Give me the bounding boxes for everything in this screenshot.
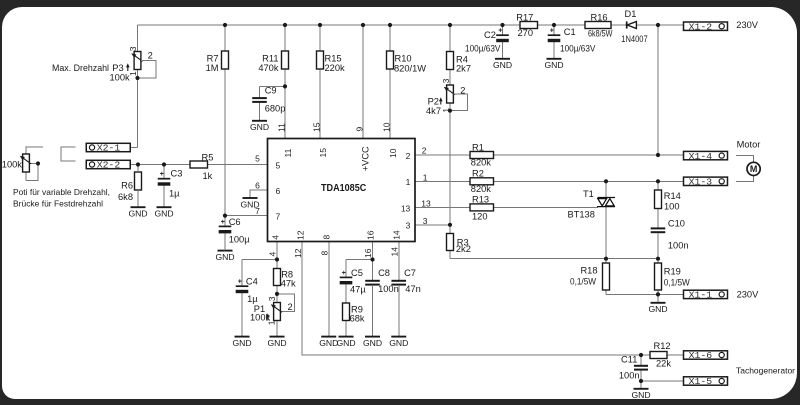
svg-text:X1-3: X1-3 [689,177,713,188]
svg-text:8: 8 [320,251,330,256]
wire left poti wiper and bottom tie [26,164,38,181]
wire X2-2 to pin 5 (via R5) [130,164,268,166]
svg-text:12: 12 [293,248,303,258]
wire P3 branch from bus to X2-1 [130,25,138,148]
junction T1 top [604,179,608,183]
diode D1 [621,9,647,44]
svg-text:270: 270 [518,28,534,38]
wire pin 13 row to triac gate [415,206,598,208]
svg-text:220k: 220k [325,63,346,73]
svg-text:2: 2 [288,302,293,312]
svg-text:10: 10 [381,122,391,132]
svg-text:100n: 100n [619,371,640,381]
svg-text:100µ/63V: 100µ/63V [560,43,596,53]
wire VCC bus (230V rail) [138,24,684,26]
svg-text:6k8/5W: 6k8/5W [588,28,613,38]
svg-text:100µ: 100µ [229,234,251,244]
svg-text:GND: GND [631,390,650,400]
svg-text:820k: 820k [471,158,492,168]
svg-text:X1-5: X1-5 [689,376,713,387]
svg-text:GND: GND [267,338,286,348]
connector X1-6 [684,351,728,359]
wire C5 to R9 to ground [345,284,347,337]
wire pin 14 through C7 to ground [398,242,400,337]
svg-text:GND: GND [128,209,147,219]
svg-text:C7: C7 [404,268,416,278]
svg-text:3: 3 [423,216,428,226]
svg-text:C10: C10 [668,219,685,229]
connector X1-5 [684,365,796,387]
svg-text:T1: T1 [583,189,594,199]
svg-text:15: 15 [318,148,328,158]
svg-text:R19: R19 [664,267,681,277]
resistor R18 [570,263,610,290]
svg-text:Brücke für Festdrehzahl: Brücke für Festdrehzahl [13,199,103,209]
wire R15 branch bus to pin 15 [319,25,321,139]
svg-text:230V: 230V [737,290,760,300]
svg-text:100k: 100k [2,160,23,170]
wire T1 vertical [605,181,607,258]
ground pin 8 [321,336,336,338]
ground C4 [235,336,250,338]
connector X1-3 [684,177,728,185]
svg-text:820/1W: 820/1W [394,63,426,73]
wire P1 wiper loop [277,294,294,312]
svg-text:GND: GND [154,209,173,219]
resistor R14 [655,190,681,212]
svg-text:13: 13 [421,199,431,209]
ground C11 [634,388,649,390]
svg-text:GND: GND [215,252,234,262]
wire pin 6 to ground [250,190,268,198]
wire snubber bottom row to X1-1 [606,293,684,295]
wire node pin16 to C5 [346,260,373,278]
svg-text:0,1/5W: 0,1/5W [664,278,690,288]
svg-text:820k: 820k [471,184,492,194]
svg-text:X1-1: X1-1 [689,290,713,301]
wire R19 stubs [657,259,659,295]
ground C7 [391,336,406,338]
resistor R13 [470,194,494,221]
svg-text:100: 100 [664,202,680,212]
svg-text:C4: C4 [246,277,258,287]
junction P2 wiper tie [448,109,452,113]
connector X2-2 [86,160,130,168]
svg-text:GND: GND [319,338,338,348]
junction R6 top [136,162,140,166]
svg-text:Poti für variable Drehzahl,: Poti für variable Drehzahl, [13,187,110,197]
capacitor C3 [158,165,183,208]
wire pin 9 +VCC to bus [362,25,364,139]
svg-text:+VCC: +VCC [360,146,370,171]
wire node pin4 to C4 [242,259,277,261]
svg-text:2: 2 [460,86,465,96]
svg-text:100k: 100k [110,72,131,82]
capacitor C9 [252,86,285,121]
capacitor C7 [391,268,420,294]
svg-text:22k: 22k [656,359,671,369]
junction R14 top [656,179,660,183]
junction pin7 node [223,214,227,218]
svg-text:R1: R1 [472,142,484,152]
svg-text:8: 8 [322,235,332,240]
resistor R9 [343,303,365,324]
svg-text:7: 7 [276,211,281,221]
svg-text:120: 120 [472,211,488,221]
svg-text:GND: GND [250,122,269,132]
svg-text:2: 2 [148,51,153,61]
junction C3 top [162,162,166,166]
svg-text:R16: R16 [591,12,608,22]
svg-text:3: 3 [441,78,451,83]
svg-text:2: 2 [422,146,427,156]
svg-text:M: M [750,164,758,174]
svg-text:1µ: 1µ [169,188,180,198]
potentiometer P2 [426,78,468,116]
svg-text:BT138: BT138 [568,209,595,219]
svg-text:12: 12 [295,230,305,240]
resistor R1 [470,142,494,167]
wire pin 12 to tacho line [302,242,641,356]
svg-text:+: + [498,28,502,35]
svg-text:R5: R5 [202,152,214,162]
capacitor C11 [619,354,648,380]
svg-text:GND: GND [648,304,667,314]
wire R12 row [641,354,684,356]
ground R6 [131,206,146,208]
svg-text:TDA1085C: TDA1085C [321,183,366,194]
svg-text:680p: 680p [265,103,286,113]
svg-text:Tachogenerator: Tachogenerator [736,365,795,375]
junction pin 16 node [370,257,374,261]
svg-text:C3: C3 [171,168,183,178]
wire motor connection [736,156,754,182]
svg-text:3: 3 [406,221,411,231]
svg-text:68k: 68k [350,314,365,324]
svg-text:4: 4 [268,252,278,257]
wire X2-1 stub [130,147,138,149]
svg-text:+: + [160,171,164,178]
svg-text:R11: R11 [262,54,278,64]
ground C9 [252,120,267,122]
svg-text:R12: R12 [654,341,671,351]
svg-text:230V: 230V [736,20,759,30]
svg-text:11: 11 [283,148,293,157]
svg-text:R7: R7 [207,54,219,64]
svg-text:R15: R15 [325,54,342,64]
svg-text:16: 16 [363,248,373,258]
wire ground stub at X1-1 row [657,294,659,302]
svg-text:+: + [221,219,225,226]
svg-text:GND: GND [240,199,259,209]
svg-text:0,1/5W: 0,1/5W [570,276,596,286]
svg-text:3: 3 [267,296,277,301]
capacitor C6 [219,216,251,251]
connector X1-1 [684,290,760,301]
junction pin 3 node [448,223,452,227]
wire R4/P2 branch bus to pin 3 node [449,25,451,225]
svg-text:9: 9 [354,127,364,132]
svg-text:X2-2: X2-2 [97,160,121,171]
connector X1-2 [684,20,759,32]
resistor R10 [387,51,427,73]
svg-text:C2: C2 [484,30,496,40]
connector X1-4 [684,139,761,161]
svg-text:15: 15 [311,122,321,132]
svg-text:1M: 1M [206,63,219,73]
svg-text:6: 6 [276,186,281,196]
junction bus [656,23,660,27]
connector X2-1 [86,143,130,151]
svg-text:C9: C9 [265,86,277,96]
svg-text:+: + [238,279,242,286]
resistor R15 [317,51,346,73]
svg-text:1: 1 [423,172,428,182]
resistor R17 [516,12,537,38]
svg-text:4: 4 [270,235,280,240]
svg-text:5: 5 [276,160,281,170]
svg-text:10: 10 [388,148,398,158]
svg-text:C8: C8 [378,268,390,278]
svg-text:1µ: 1µ [247,294,258,304]
resistor R12 [650,341,671,369]
svg-text:GND: GND [493,60,512,70]
svg-text:100µ/63V: 100µ/63V [465,44,501,54]
potentiometer P1 [250,296,293,325]
svg-text:1k: 1k [203,171,213,181]
wire C11 chain to X1-5 [641,355,684,389]
ground R9 [339,336,354,338]
svg-text:GND: GND [363,338,382,348]
svg-text:Max. Drehzahl: Max. Drehzahl [52,63,109,73]
ground C8 [365,336,380,338]
junction P3 wiper tie [135,76,139,80]
junction bus [283,23,287,27]
wire pin 8 to ground [328,242,330,337]
junction bus [552,23,556,27]
svg-text:R13: R13 [472,194,489,204]
wire R14 C10 chain [657,181,659,258]
triac T1 BT138 [568,189,616,219]
resistor R19 [655,263,690,290]
ground P1 [270,336,285,338]
wire pin 2 row to X1-4 [415,154,684,156]
op-amp U1 TDA1085C [268,139,416,242]
svg-text:6: 6 [255,181,260,191]
svg-text:C5: C5 [351,268,363,278]
svg-text:X1-6: X1-6 [689,350,713,361]
junction bus [318,23,322,27]
svg-text:+: + [550,28,554,35]
svg-text:R14: R14 [664,191,681,201]
junction bus [448,23,452,27]
svg-text:+: + [342,270,346,277]
svg-text:6k8: 6k8 [118,192,133,202]
svg-text:100n: 100n [668,240,689,250]
wire D1 cathode to X1-2 and down to motor line [657,25,659,155]
wire R8 stubs [276,260,278,294]
svg-text:11: 11 [276,123,286,132]
capacitor C10 [651,219,689,251]
wire pin 16 node to C8 and ground [372,260,374,337]
svg-text:16: 16 [366,230,376,240]
svg-text:C11: C11 [621,354,637,364]
resistor R3 [447,234,471,255]
ground X1-1 row [651,302,666,304]
svg-text:D1: D1 [625,9,637,19]
svg-text:3: 3 [128,46,138,51]
wire pin 16 stub [372,242,374,260]
wire R7 branch bus to pin 7 node [225,25,268,216]
wire R3 to snubber row [450,225,658,259]
junction C9 node [283,84,287,88]
svg-text:R17: R17 [516,12,533,22]
junction bus [388,23,392,27]
svg-text:470k: 470k [258,63,279,73]
svg-text:2: 2 [406,151,411,161]
junction bus [361,23,365,27]
wire jumper bracket [61,147,76,161]
svg-text:X1-4: X1-4 [689,151,713,162]
svg-text:C1: C1 [564,27,576,37]
resistor R8 [274,269,297,289]
resistor R6 [118,165,142,208]
motor M [747,162,760,175]
svg-text:1: 1 [406,177,411,187]
svg-text:GND: GND [232,338,251,348]
svg-text:47µ: 47µ [350,284,366,294]
ground C3 [157,206,172,208]
wire R18 stubs [605,259,607,295]
junction X1-1 node [656,292,660,296]
junction snubber row left [604,257,608,261]
svg-text:X2-1: X2-1 [97,143,121,154]
svg-text:2k2: 2k2 [456,244,471,254]
junction bus [223,23,227,27]
junction pin 4 node [275,257,279,261]
svg-text:P2: P2 [428,97,439,107]
resistor R2 [470,169,494,194]
resistor R7 [206,51,229,73]
wire P1 chain to ground [276,294,278,337]
capacitor C5 [340,268,367,294]
wire R11 branch bus to pin 11 [284,25,286,139]
svg-text:2k7: 2k7 [456,64,471,74]
junction X1-4 node [656,153,660,157]
svg-text:GND: GND [336,338,355,348]
junction snubber row right [656,257,660,261]
resistor R11 [258,51,288,73]
ground C6 [218,250,233,252]
svg-text:5: 5 [255,153,260,163]
wire R10 branch bus to pin 10 [389,25,391,139]
wire pin 4 stub [276,242,278,260]
ground C1 [547,58,562,60]
junction bus [500,23,504,27]
capacitor C1 [548,25,596,59]
capacitor C4 [236,260,259,337]
capacitor C2 [465,25,509,59]
svg-text:GND: GND [544,60,563,70]
svg-text:R2: R2 [472,169,484,179]
wire pin 3 stub [415,224,450,226]
capacitor C8 [365,268,399,294]
svg-text:C6: C6 [229,217,241,227]
resistor R4 [447,52,472,74]
ground C2 [495,58,510,60]
ground pin 6 [243,197,258,199]
svg-text:Motor: Motor [737,139,761,149]
svg-text:14: 14 [392,230,402,240]
wire pin 1 row to X1-3 [415,180,684,182]
potentiometer P3 [52,46,156,82]
svg-text:4k7: 4k7 [426,106,441,116]
svg-text:X1-2: X1-2 [689,21,713,32]
resistor R16 [585,12,613,38]
junction C11 top [639,353,643,357]
junction R8 bottom [275,292,279,296]
junction left poti wiper [36,161,40,165]
resistor R5 [190,152,213,181]
svg-text:R10: R10 [395,54,412,64]
svg-text:R18: R18 [580,266,597,276]
svg-text:13: 13 [401,203,411,213]
svg-text:GND: GND [389,338,408,348]
svg-text:47k: 47k [281,278,296,288]
potentiometer 100k (external) [2,154,31,172]
svg-text:1N4007: 1N4007 [621,34,647,44]
wire left poti top lead [26,147,43,154]
svg-text:47n: 47n [405,284,421,294]
svg-text:R6: R6 [121,180,133,190]
junction C11 bottom [639,379,643,383]
svg-text:14: 14 [390,247,400,257]
